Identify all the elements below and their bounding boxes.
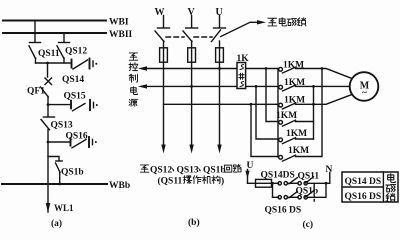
line L3 (164, 103, 279, 105)
earthing switch QS16 (48, 132, 97, 148)
wire from WBI (34, 21, 36, 43)
bypass disconnector QS1b (48, 157, 84, 185)
control line L2 with left arrow (145, 85, 278, 87)
contactor contact 1KM row1 (279, 60, 304, 73)
svg-text:): ) (221, 175, 224, 186)
fuse W (163, 41, 165, 149)
svg-text:QS16 DS: QS16 DS (345, 192, 382, 202)
svg-text:QS13: QS13 (177, 165, 199, 175)
svg-text:QS13: QS13 (51, 121, 73, 131)
svg-text:(c): (c) (303, 219, 314, 230)
svg-text:1KM: 1KM (288, 146, 309, 156)
node junction to QF1 (46, 62, 49, 65)
wire to N (307, 173, 329, 184)
svg-text:QS12: QS12 (150, 165, 172, 175)
linkage rail through contacts (277, 69, 279, 158)
switch pole W (155, 16, 170, 42)
junction dots on WBb (58, 183, 61, 186)
wire (288, 196, 299, 198)
circuit breaker QF1 (27, 78, 52, 97)
earthing switch QS15 (48, 92, 98, 111)
row5 wire to rail (296, 138, 314, 140)
aux contact QS14DS (261, 171, 298, 185)
wire joining QS11/QS12 (36, 62, 72, 64)
svg-text:QS16: QS16 (66, 132, 88, 142)
row3 wire to motor (296, 95, 352, 105)
svg-text:QS11: QS11 (38, 49, 60, 59)
fuse V (191, 41, 193, 149)
control line L1 with left arrow (145, 68, 278, 70)
disconnector QS11 (29, 43, 60, 64)
wire (47, 63, 49, 77)
svg-text:QS1b: QS1b (203, 165, 226, 175)
wire from U with down arrow (247, 170, 249, 184)
svg-text:(QS11: (QS11 (158, 175, 183, 186)
contactor contact 1KM row6 (279, 146, 309, 161)
wire (47, 130, 49, 213)
svg-text:QS14: QS14 (62, 75, 84, 85)
aux contact QS1b (296, 186, 319, 199)
svg-text:(b): (b) (188, 217, 200, 228)
dashed linkage QS11-QS1b (313, 184, 315, 202)
svg-text:1KM: 1KM (286, 129, 307, 139)
wire from WBII (63, 33, 65, 42)
busbar WBII (3, 32, 106, 34)
svg-text:1KM: 1KM (276, 111, 297, 121)
legend box (342, 172, 398, 202)
node to QS16 (47, 141, 50, 144)
label 至QS12、QS13、QS1b回路 (140, 164, 241, 175)
fuse in control circuit (256, 179, 272, 187)
svg-text:~: ~ (362, 88, 367, 98)
label 至控制电源 (vertical) (129, 53, 138, 106)
wire rejoining upper branch (307, 183, 326, 197)
svg-text:WL1: WL1 (54, 203, 74, 213)
svg-text:QS15: QS15 (64, 92, 86, 102)
disconnector QS12 (57, 43, 87, 64)
switch pole U (212, 16, 226, 42)
feed rail V3 to row6 (250, 103, 253, 106)
disconnector QS13 (41, 117, 73, 131)
row6 wire up to row1 (296, 69, 323, 157)
label 至电磁锁 (268, 18, 306, 26)
feeder WL1 arrow (46, 203, 51, 213)
svg-text:WBI: WBI (109, 17, 129, 27)
contactor contact 1KM row2 (279, 78, 305, 91)
fuse U (219, 41, 221, 149)
svg-text:WBII: WBII (109, 30, 133, 40)
switch pole V (183, 16, 198, 42)
svg-text:QS1b: QS1b (61, 167, 84, 177)
row1 wire to motor (296, 69, 352, 79)
svg-text:QS14DS: QS14DS (261, 171, 295, 181)
row2 wire to motor (296, 85, 350, 87)
aux contact QS11 (298, 172, 320, 185)
branch down (272, 183, 274, 197)
electromagnetic lock coil 1K (237, 54, 250, 89)
contactor contact 1KM row3 (279, 96, 305, 109)
bypass busbar WBb (2, 183, 107, 185)
svg-text:QF1: QF1 (27, 87, 45, 97)
svg-text:(a): (a) (51, 218, 62, 229)
aux contact QS16DS (265, 192, 302, 216)
svg-text:QS11: QS11 (298, 172, 320, 182)
feed rail V2 to row5 (255, 85, 258, 88)
wire after fuse (272, 182, 279, 184)
wire (288, 182, 299, 184)
svg-text:WBb: WBb (109, 181, 130, 191)
row4 wire up to row3 (296, 86, 314, 121)
motor M (350, 72, 379, 101)
svg-text:QS12: QS12 (65, 47, 87, 57)
earthing switch QS14 (62, 59, 97, 86)
contactor contact 1KM row4 (276, 111, 297, 126)
svg-text:N: N (326, 165, 333, 175)
svg-text:QS16 DS: QS16 DS (265, 205, 302, 215)
contactor contact 1KM row5 (279, 129, 307, 143)
wire (47, 97, 49, 117)
node to QS15 (47, 103, 50, 106)
wire to electromagnetic-lock arrow (221, 22, 258, 36)
down arrows to QS12/QS13/QS1b circuits (161, 145, 165, 154)
mechanical linkage dashes (166, 36, 184, 38)
busbar WBI (3, 20, 106, 22)
label (QS11 操作机构) (158, 175, 225, 186)
feed rail V1 to row4 (265, 67, 268, 70)
svg-text:QS14 DS: QS14 DS (345, 177, 382, 187)
